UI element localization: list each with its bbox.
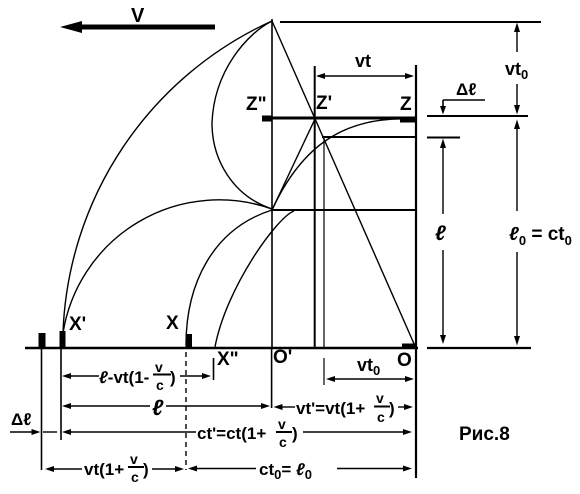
svg-text:): ): [389, 399, 395, 418]
X tick: [186, 334, 193, 347]
l0 = ct0 dimension: [514, 120, 520, 346]
svg-text:): ): [143, 460, 149, 479]
O' vertical extension: [271, 349, 273, 408]
light circle arc apex to junction (bulge left): [212, 21, 272, 209]
right main vertical at O/Z: [415, 65, 417, 478]
svg-text:V: V: [131, 5, 145, 27]
label ct'=ct(1+v/c): [196, 416, 303, 450]
vt0 top dimension: [514, 23, 520, 115]
svg-text:ℓ0 = ct0: ℓ0 = ct0: [509, 224, 572, 248]
svg-text:v: v: [155, 359, 163, 375]
dim4: ct'=ct(1+v/c): [10, 429, 412, 435]
svg-text:vt: vt: [355, 51, 371, 71]
vt0 bottom dimension: [326, 376, 414, 382]
l dimension right: [440, 139, 446, 345]
thick Z level line: [262, 117, 417, 120]
svg-text:ℓ: ℓ: [152, 395, 164, 420]
svg-text:c: c: [131, 469, 139, 485]
left small tick: [39, 333, 46, 347]
svg-text:c: c: [156, 377, 164, 393]
Z' vertical line: [314, 66, 316, 348]
thin vertical x324: [323, 137, 325, 348]
x324 extension below baseline: [323, 358, 325, 385]
arc junction to X: [186, 210, 272, 345]
label l-vt(1-v/c): [99, 359, 176, 393]
svg-text:Z": Z": [246, 94, 267, 115]
svg-text:ct'=ct(1+: ct'=ct(1+: [197, 424, 266, 443]
arc X' to junction (bulge up): [63, 200, 272, 333]
dim5: vt(1+v/c): [45, 466, 184, 472]
extension of Z level line right: [427, 115, 528, 117]
velocity arrow V: [60, 21, 215, 33]
arc X'' to horizontal: [215, 211, 294, 347]
svg-text:X': X': [69, 314, 86, 335]
label vt(1+v/c): [84, 451, 149, 485]
dim2: l: [62, 403, 270, 409]
svg-text:O': O': [273, 347, 292, 368]
X' tick: [60, 331, 66, 347]
svg-text:X: X: [166, 313, 179, 334]
label vt'=vt(1+v/c): [296, 390, 395, 425]
vt dimension ticks: [415, 65, 417, 105]
outer arc apex to X': [63, 21, 272, 333]
O tick: [402, 344, 417, 349]
baseline: [25, 347, 418, 350]
vt dimension line: [316, 73, 414, 79]
svg-text:): ): [292, 424, 298, 443]
svg-text:v: v: [376, 390, 384, 406]
X'' bracket: [213, 358, 215, 380]
bottom-left vertical extension ct': [41, 347, 43, 470]
dim3: vt'=vt(1+v/c): [274, 404, 414, 410]
svg-text:v: v: [278, 416, 286, 432]
apex vertical line O': [271, 19, 273, 348]
svg-text:c: c: [377, 409, 385, 425]
svg-text:Δℓ: Δℓ: [456, 80, 477, 99]
Z tick: [400, 117, 417, 123]
dim6: ct0 = l0: [188, 466, 412, 472]
X' vertical extension: [60, 349, 62, 440]
svg-text:Рис.8: Рис.8: [459, 424, 510, 445]
dashed X vertical extension: [185, 352, 187, 470]
svg-text:v: v: [130, 451, 138, 467]
second horizontal line y137: [322, 136, 417, 138]
svg-text:X": X": [217, 349, 239, 370]
svg-text:ct0= ℓ0: ct0= ℓ0: [259, 460, 312, 482]
baseline right segment: [427, 347, 531, 349]
line junction to Z': [272, 119, 315, 210]
svg-text:vt(1+: vt(1+: [84, 460, 124, 479]
svg-text:Z': Z': [316, 93, 332, 114]
svg-text:ℓ: ℓ: [435, 222, 446, 245]
svg-text:vt'=vt(1+: vt'=vt(1+: [296, 399, 365, 418]
top horizontal line: [280, 21, 541, 23]
svg-text:c: c: [279, 434, 287, 450]
svg-text:ℓ-vt(1-: ℓ-vt(1-: [99, 368, 149, 387]
svg-text:Δℓ: Δℓ: [11, 410, 32, 429]
svg-text:O: O: [397, 350, 412, 371]
svg-text:Z: Z: [400, 94, 412, 115]
diagonal apex to O: [272, 21, 415, 346]
curve junction to Z (flattening): [272, 119, 412, 210]
extension of y137 line right: [427, 137, 460, 139]
horizontal line y210 junction to right vertical: [272, 209, 416, 211]
dim1: l-vt(1-v/c): [62, 373, 211, 379]
Z'' tick: [262, 116, 272, 122]
svg-text:): ): [170, 368, 176, 387]
